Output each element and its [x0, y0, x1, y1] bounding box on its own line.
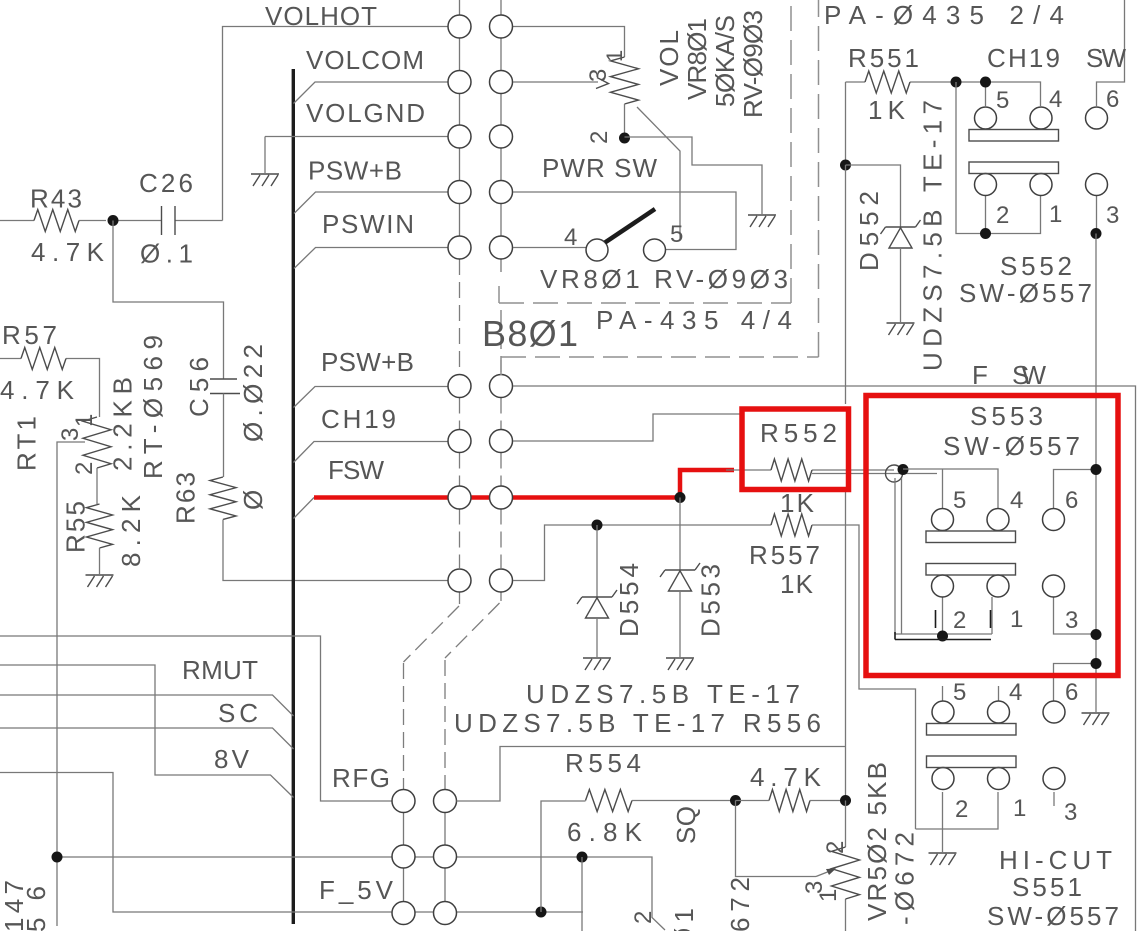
net label PSWIN	[322, 209, 414, 239]
wire S552 pin6 up	[1097, 0, 1125, 106]
wire VOLHOT net	[223, 27, 625, 221]
svg-text:5: 5	[953, 487, 966, 514]
wire right rail vertical	[1095, 234, 1097, 713]
wire R43 junction down to C56	[113, 221, 224, 380]
svg-text:VOLHOT: VOLHOT	[265, 1, 377, 31]
wire 8V net	[0, 665, 294, 798]
svg-text:SW-Ø557: SW-Ø557	[987, 901, 1119, 931]
ground (rail)	[1082, 713, 1110, 725]
label D554 vertical	[614, 563, 644, 637]
label RT1	[12, 416, 42, 471]
svg-text:2.2KB: 2.2KB	[108, 377, 138, 471]
label CH19 SW	[987, 43, 1126, 73]
label D553 vertical	[696, 564, 726, 637]
net label F_5V	[319, 875, 394, 905]
wire CH19 with slant	[294, 442, 449, 463]
wire D554 to ground	[596, 618, 598, 657]
svg-text:4.7K: 4.7K	[31, 237, 105, 267]
wire R551 left down to D552 node	[845, 82, 847, 165]
label 47 column	[0, 880, 29, 931]
svg-text:PSWIN: PSWIN	[322, 209, 414, 239]
net label CH19	[321, 404, 396, 434]
svg-text:PWR SW: PWR SW	[542, 153, 657, 183]
svg-text:4: 4	[1010, 487, 1023, 514]
svg-text:8.2K: 8.2K	[116, 494, 146, 567]
node dot R557/D554	[592, 520, 603, 531]
label 0.022 (C56)	[238, 344, 268, 442]
wire D553	[679, 498, 681, 571]
label S552	[1000, 251, 1072, 281]
svg-text:R63: R63	[171, 472, 201, 524]
pin 6 (S551)	[1065, 679, 1078, 706]
wiper arrow VR801 (VOLCOM)	[513, 81, 598, 83]
label VR801 RV-0903	[540, 264, 788, 294]
svg-text:C26: C26	[139, 168, 193, 198]
pin 2 (S553)	[953, 607, 966, 634]
label B801	[482, 313, 578, 354]
net label SC	[218, 698, 258, 728]
label R55	[61, 501, 91, 553]
svg-text:RMUT: RMUT	[182, 655, 258, 685]
net label RFG	[332, 763, 390, 793]
node dot S552 pin5	[980, 77, 991, 88]
pin 1 (VR502)	[815, 889, 842, 902]
label HI-CUT	[999, 845, 1112, 875]
svg-text:FSW: FSW	[328, 455, 384, 485]
wiper arrow VR502	[816, 871, 830, 877]
wire C56 to R63	[223, 394, 225, 478]
label 0672 vertical	[890, 832, 920, 925]
dashed box PA-0435 sheet	[501, 0, 819, 375]
svg-text:4: 4	[1049, 86, 1062, 113]
label R63	[171, 472, 201, 524]
label 8.2K (R55)	[116, 494, 146, 567]
pin 4 (PWR SW)	[564, 224, 577, 251]
wire F SW long net	[513, 386, 1136, 931]
zener diode D553	[660, 563, 700, 591]
label RT-0569 (RT1)	[138, 335, 168, 479]
node dot x57	[52, 852, 63, 863]
resistor R43	[0, 210, 106, 232]
svg-text:2: 2	[71, 462, 98, 475]
label R552	[760, 418, 837, 448]
svg-text:4: 4	[564, 224, 577, 251]
wire VOLGND to ground right path	[625, 137, 763, 214]
pin 5 (PWR SW)	[670, 221, 683, 248]
node dot x582	[577, 852, 588, 863]
net label VOLGND	[306, 98, 425, 128]
wire SC net	[0, 728, 294, 749]
pin 2 (VR502)	[822, 841, 849, 854]
pin 4 (S553)	[1010, 487, 1023, 514]
annotation red box S553	[866, 396, 1118, 676]
svg-text:1: 1	[815, 889, 842, 902]
wire S551 pin5 stub	[942, 686, 944, 701]
wire PSW+B row2 with slant	[294, 387, 449, 408]
svg-text:PSW+B: PSW+B	[321, 347, 414, 377]
resistor R63	[210, 477, 236, 519]
connector dashed slant transitions	[404, 603, 500, 790]
svg-text:2: 2	[953, 607, 966, 634]
label PA-0435 2/4	[824, 0, 1064, 30]
svg-text:2: 2	[822, 841, 849, 854]
wire S553 pin6 to rail	[1054, 470, 1097, 509]
svg-text:3: 3	[1064, 799, 1077, 826]
svg-text:SW: SW	[1086, 43, 1126, 73]
wire RMUT net	[0, 695, 294, 716]
label 672 vertical	[725, 877, 755, 931]
node dot rail/S551 pin6	[1091, 658, 1102, 669]
svg-text:RT1: RT1	[12, 416, 42, 471]
wire D554	[596, 525, 598, 597]
annotation red box R552	[742, 409, 849, 490]
zener diode D554	[577, 590, 617, 618]
pin 5 (S551)	[953, 679, 966, 706]
svg-text:CH19: CH19	[321, 404, 396, 434]
svg-text:F: F	[972, 360, 988, 390]
label C56	[184, 357, 214, 417]
net label F SW	[972, 360, 1046, 390]
wire S551 pin3 stub	[1053, 792, 1055, 806]
svg-text:6.8K: 6.8K	[567, 817, 643, 847]
svg-text:4: 4	[1009, 679, 1022, 706]
svg-text:VOL: VOL	[654, 30, 684, 86]
ground (R55)	[86, 575, 114, 587]
wire x582 down	[581, 857, 583, 931]
ground (VOLGND)	[251, 174, 279, 186]
pin 4 (S552)	[1049, 86, 1062, 113]
label VR502 5KB vertical	[862, 762, 892, 921]
wire SQ to VR502 wiper	[736, 801, 817, 877]
svg-text:Ø.1: Ø.1	[140, 239, 193, 269]
wire CH19 net to R552	[513, 414, 741, 441]
svg-text:672: 672	[725, 877, 755, 931]
node FSW/D553 junction dot	[675, 492, 686, 503]
pin 6 (S553)	[1065, 487, 1078, 514]
pin 3 (S551)	[1064, 799, 1077, 826]
label UDZS7.5B TE-17 R556 line2	[454, 708, 821, 738]
svg-text:5: 5	[670, 221, 683, 248]
svg-text:R57: R57	[2, 320, 57, 350]
zener diode D552	[881, 220, 921, 248]
node dot rail top	[1091, 228, 1102, 239]
resistor R57	[0, 348, 100, 418]
label 0.1 (C26)	[140, 239, 193, 269]
label 56 column	[21, 886, 51, 931]
wire PSWIN with slant	[294, 248, 448, 269]
svg-text:R551: R551	[848, 43, 919, 73]
svg-text:B8Ø1: B8Ø1	[482, 313, 578, 354]
net label 8V	[214, 744, 250, 774]
svg-text:8V: 8V	[214, 744, 250, 774]
svg-text:3: 3	[1106, 202, 1119, 229]
connector pins lower block right	[434, 790, 457, 925]
potentiometer VR502	[832, 801, 860, 931]
pin 4 (S551)	[1009, 679, 1022, 706]
wire D553 to ground	[679, 591, 681, 657]
label C26	[139, 168, 193, 198]
pin 1 (VR801)	[602, 50, 627, 62]
svg-text:1: 1	[1049, 201, 1062, 228]
svg-text:R55: R55	[61, 501, 91, 553]
svg-text:1: 1	[1010, 606, 1023, 633]
wire D552 to ground	[900, 248, 902, 322]
wire node to S553 pins 5/4	[903, 469, 998, 509]
svg-text:1K: 1K	[780, 488, 815, 518]
svg-text:D554: D554	[614, 563, 644, 637]
pin 5 (S552)	[996, 87, 1009, 114]
svg-text:3: 3	[57, 428, 84, 441]
label PWR SW	[542, 153, 657, 183]
label SW-0557 (S552)	[959, 278, 1092, 308]
svg-text:PA-435 4/4: PA-435 4/4	[596, 305, 792, 335]
svg-text:VR8Ø1 RV-Ø9Ø3: VR8Ø1 RV-Ø9Ø3	[540, 264, 788, 294]
svg-text:UDZS7.5B TE-17: UDZS7.5B TE-17	[918, 100, 948, 371]
net label PSW+B (2)	[321, 347, 414, 377]
label 50KA/S vertical	[710, 15, 740, 107]
node VOLGND junction dot (VR801 pin2)	[619, 133, 630, 144]
wire FSW slant	[294, 498, 315, 519]
ground (D552)	[887, 323, 915, 335]
capacitor C56	[210, 379, 240, 394]
wire F5V to R554	[541, 801, 586, 912]
resistor R552	[726, 459, 937, 481]
node VOLHOT junction dot R43/C26	[108, 215, 119, 226]
svg-text:6: 6	[1065, 487, 1078, 514]
label 1K (R557)	[780, 569, 814, 599]
pin 3 (S553)	[1065, 607, 1078, 634]
svg-text:F_5V: F_5V	[319, 875, 394, 905]
label VOL VR801 vertical	[654, 30, 684, 86]
svg-text:SW-Ø557: SW-Ø557	[943, 431, 1080, 461]
resistor R55	[87, 504, 113, 574]
wire S552 commons loop	[956, 82, 1041, 234]
svg-text:RV-Ø9Ø3: RV-Ø9Ø3	[738, 10, 768, 118]
svg-text:D553: D553	[696, 564, 726, 637]
label 4.7K (R43)	[31, 237, 105, 267]
connector pins left column B801	[448, 15, 471, 592]
wire VOLGND	[265, 137, 448, 174]
svg-text:R43: R43	[30, 184, 82, 214]
net label VOLHOT	[265, 1, 377, 31]
pin 1 (S551)	[1013, 795, 1026, 822]
wire PSW+B to switch pin5	[513, 192, 736, 250]
switch S553 contact brackets	[895, 610, 991, 640]
label R43	[30, 184, 82, 214]
svg-text:PSW+B: PSW+B	[308, 156, 402, 186]
svg-text:C56: C56	[184, 357, 214, 417]
svg-text:SQ: SQ	[671, 806, 701, 844]
wire node to D552	[846, 165, 901, 227]
label 2.2KB (RT1)	[108, 377, 138, 471]
resistor R551	[846, 71, 957, 93]
net label RMUT	[182, 655, 258, 685]
svg-text:1: 1	[71, 414, 98, 427]
label S553	[970, 401, 1043, 431]
pin 3 (VR502)	[801, 881, 828, 894]
pin 1 (S553)	[1010, 606, 1023, 633]
svg-text:3: 3	[1065, 607, 1078, 634]
potentiometer VR801	[611, 57, 639, 139]
switch S553	[926, 509, 1065, 598]
connector pins lower block left	[392, 790, 415, 925]
label R554	[565, 748, 641, 778]
resistor R557	[771, 514, 916, 829]
pin 6 (S552)	[1106, 86, 1119, 113]
label UDZS7.5B TE-17 vertical	[918, 100, 948, 371]
ground (D554)	[583, 658, 611, 670]
svg-text:RFG: RFG	[332, 763, 390, 793]
pin 3 (S552)	[1106, 202, 1119, 229]
node dot R554/R556/SQ	[730, 795, 741, 806]
svg-text:5: 5	[953, 679, 966, 706]
switch PWR SW pin5 circle	[644, 239, 666, 261]
pin 3 (RT1)	[57, 428, 84, 441]
svg-text:VOLCOM: VOLCOM	[306, 45, 424, 75]
wire node down to S553 common	[895, 478, 992, 636]
svg-text:2: 2	[586, 131, 613, 144]
label 1K (R552)	[780, 488, 815, 518]
svg-text:Ø: Ø	[238, 490, 268, 510]
svg-text:SW: SW	[1012, 360, 1046, 390]
svg-text:HI-CUT: HI-CUT	[999, 845, 1112, 875]
ground (D553)	[666, 658, 694, 670]
label SQ vertical	[671, 806, 701, 844]
svg-text:2: 2	[996, 202, 1009, 229]
bus cable line	[292, 69, 295, 924]
svg-text:4.7K: 4.7K	[0, 375, 75, 405]
connector pin column lines lower block	[404, 813, 446, 902]
wire FSW highlighted red	[314, 470, 734, 498]
label RV-0903 vertical	[738, 10, 768, 118]
label 4.7K (R556)	[750, 762, 822, 792]
switch S551	[927, 701, 1066, 790]
pin 2 (RT1)	[71, 462, 98, 475]
pin 3 (VR801)	[585, 69, 612, 82]
switch PWR SW actuator	[605, 209, 655, 243]
label SW-0557 (S551)	[987, 901, 1119, 931]
wire row580 to R557	[513, 525, 771, 581]
svg-text:1: 1	[1013, 795, 1026, 822]
label 1K (R551)	[868, 95, 906, 125]
node dot R551/D552	[840, 160, 851, 171]
wire RFG right to R556 node	[457, 747, 846, 802]
pin 2 (VR801)	[586, 131, 613, 144]
pin 1 (S552)	[1049, 201, 1062, 228]
switch PWR SW pin4 circle	[586, 239, 608, 261]
wire S552 pin3 down to rail	[1096, 195, 1098, 234]
node dot rail/S553 pin6	[1091, 464, 1102, 475]
wire S551 commons loop	[916, 792, 999, 852]
wire PSW+B row1 with slant	[294, 192, 448, 214]
switch S552	[969, 107, 1108, 196]
wire RT1 pin3 to bottom rail	[57, 442, 85, 926]
node open circle R552/S553	[886, 465, 903, 482]
wire VOLCOM with slant	[294, 82, 449, 104]
label VR801 vertical	[682, 18, 712, 100]
wire R551 to S552 pins 5/4	[956, 82, 1041, 106]
wire x846 vertical (R551 to R556 rail)	[845, 165, 847, 800]
pin 2 (S552)	[996, 202, 1009, 229]
label 4.7K (R57)	[0, 375, 75, 405]
pin 5 (S553)	[953, 487, 966, 514]
svg-text:3: 3	[585, 69, 612, 82]
net label VOLCOM	[306, 45, 424, 75]
svg-text:CH19: CH19	[987, 43, 1060, 73]
label S551	[1012, 872, 1082, 902]
capacitor C26	[119, 206, 223, 235]
svg-text:SW-Ø557: SW-Ø557	[959, 278, 1092, 308]
label 2 partial vertical	[630, 911, 657, 924]
label UDZS7.5B TE-17 line1	[526, 679, 800, 709]
wire R63 to connector row (net to pin)	[223, 520, 448, 581]
pin 2 (S551)	[955, 796, 968, 823]
svg-text:UDZS7.5B TE-17: UDZS7.5B TE-17	[526, 679, 800, 709]
svg-text:VR8Ø1: VR8Ø1	[682, 18, 712, 100]
svg-text:2: 2	[955, 796, 968, 823]
node dot R552/S553	[898, 464, 909, 475]
svg-text:1: 1	[602, 50, 627, 62]
wire PSWIN to switch pin4	[513, 247, 586, 249]
net label FSW	[328, 455, 384, 485]
wire rail to S551 pin6	[1054, 664, 1097, 702]
node dot S553 common	[937, 631, 948, 642]
resistor R554	[586, 790, 736, 812]
node dot F5V x541	[536, 907, 547, 918]
dashed box B801 module	[499, 0, 791, 303]
svg-text:6: 6	[1106, 86, 1119, 113]
wire row857 horizontal	[57, 857, 665, 930]
label 01 partial vertical	[669, 908, 699, 931]
connector pins right column B801	[490, 15, 513, 592]
svg-text:4.7K: 4.7K	[750, 762, 822, 792]
svg-text:5ØKA/S: 5ØKA/S	[710, 15, 740, 107]
node dot rail/S553 pin3	[1091, 629, 1102, 640]
wire bottom-left net to F5V row	[0, 773, 583, 913]
svg-text:-Ø672: -Ø672	[890, 832, 920, 925]
ground (VR801)	[748, 215, 776, 227]
label R557	[749, 540, 820, 570]
connector pin column lines	[460, 0, 502, 272]
label D552 vertical	[854, 191, 884, 271]
wire net L1 to RFG pin	[0, 636, 392, 801]
label R57	[2, 320, 57, 350]
node dot R551/S552 left	[951, 77, 962, 88]
label PA-435 4/4	[596, 305, 792, 335]
label SW-0557 (S553)	[943, 431, 1080, 461]
svg-text:VR5Ø2 5KB: VR5Ø2 5KB	[862, 762, 892, 921]
label R551	[848, 43, 919, 73]
node dot S552 pin2 bottom	[980, 228, 991, 239]
svg-text:2: 2	[630, 911, 657, 924]
wire S553 pin3 to rail	[1054, 597, 1097, 634]
svg-text:Ø.Ø22: Ø.Ø22	[238, 344, 268, 442]
pin 1 (RT1)	[71, 414, 98, 427]
net label PSW+B	[308, 156, 402, 186]
ground (S551 common)	[929, 853, 957, 865]
svg-text:1K: 1K	[868, 95, 906, 125]
resistor R556 4.7K	[736, 790, 846, 812]
node dot R556/VR502	[840, 795, 851, 806]
thermistor RT1	[83, 417, 111, 504]
svg-text:5: 5	[996, 87, 1009, 114]
label 6.8K (R554)	[567, 817, 643, 847]
svg-text:R557: R557	[749, 540, 820, 570]
svg-text:6: 6	[1065, 679, 1078, 706]
wire S551 pin4 stub	[998, 686, 1000, 701]
connector pin dashed columns	[460, 259, 502, 604]
svg-text:1K: 1K	[780, 569, 814, 599]
